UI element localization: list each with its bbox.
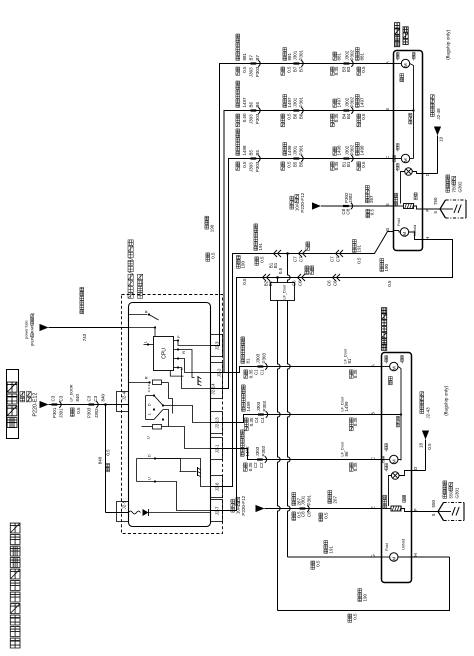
svg-text:C3: C3: [59, 395, 64, 401]
svg-text:+: +: [385, 470, 389, 472]
svg-text:J2-43: J2-43: [426, 407, 431, 419]
svg-text:D: D: [148, 403, 152, 406]
svg-text:(flagship only): (flagship only): [446, 29, 452, 59]
svg-text:190: 190: [210, 224, 215, 232]
svg-text:C1: C1: [260, 369, 265, 375]
svg-text:B7: B7: [293, 66, 298, 72]
svg-text:CPU: CPU: [162, 348, 168, 359]
svg-text:(RUN: (RUN: [31, 336, 35, 346]
svg-text:LF_DOOR: LF_DOOR: [70, 384, 74, 401]
svg-text:1499: 1499: [344, 401, 349, 412]
svg-text:R: R: [181, 351, 186, 354]
svg-text:0.35: 0.35: [353, 462, 358, 471]
svg-text:P301: P301: [307, 494, 312, 505]
svg-text:F: F: [413, 508, 418, 511]
svg-text:C8: C8: [301, 511, 306, 517]
svg-text:J2-48: J2-48: [436, 108, 441, 120]
svg-text:+: +: [412, 59, 416, 61]
svg-text:M: M: [391, 459, 396, 463]
svg-text:B: B: [371, 412, 376, 415]
svg-text:0.5: 0.5: [324, 512, 329, 519]
svg-text:0.5: 0.5: [357, 257, 362, 264]
svg-text:G301: G301: [455, 487, 460, 499]
svg-text:P220-E12: P220-E12: [33, 393, 39, 417]
svg-text:C8: C8: [346, 208, 351, 214]
svg-text:0.5: 0.5: [316, 560, 321, 567]
svg-text:B5: B5: [293, 161, 298, 167]
svg-text:+: +: [400, 362, 404, 364]
svg-text:L: L: [148, 413, 152, 415]
svg-text:550: 550: [449, 490, 454, 498]
svg-text:G302: G302: [458, 181, 463, 193]
svg-text:C4: C4: [260, 417, 265, 423]
svg-text:G: G: [371, 554, 376, 558]
svg-text:M: M: [403, 63, 408, 67]
svg-text:191: 191: [357, 244, 362, 252]
svg-text:J303: J303: [94, 408, 99, 418]
svg-text:C7: C7: [330, 256, 335, 262]
svg-text:B7: B7: [249, 54, 254, 60]
svg-text:P303: P303: [261, 445, 266, 456]
svg-text:190: 190: [241, 260, 246, 268]
svg-text:U: U: [147, 477, 152, 480]
svg-text:840: 840: [75, 393, 80, 401]
svg-text:0.5: 0.5: [106, 449, 111, 456]
svg-text:C1: C1: [254, 369, 259, 375]
svg-text:P301: P301: [299, 96, 304, 107]
svg-text:191: 191: [258, 242, 263, 250]
svg-text:P302: P302: [350, 49, 355, 60]
svg-text:(flagship only): (flagship only): [444, 385, 450, 415]
svg-text:881: 881: [242, 52, 247, 60]
svg-text:B5: B5: [249, 149, 254, 155]
svg-text:P301: P301: [299, 144, 304, 155]
svg-text:B4: B4: [346, 113, 351, 119]
svg-text:190: 190: [384, 263, 389, 271]
svg-text:+: +: [396, 59, 400, 61]
svg-text:J303: J303: [249, 114, 254, 124]
svg-text:0.35: 0.35: [334, 66, 339, 75]
svg-text:Fold: Fold: [385, 543, 389, 550]
svg-text:B1: B1: [273, 262, 278, 268]
svg-text:B: B: [385, 108, 390, 111]
svg-text:B2: B2: [268, 280, 273, 286]
svg-text:Unfold: Unfold: [413, 225, 417, 236]
svg-text:E: E: [385, 203, 390, 206]
svg-text:M: M: [391, 557, 396, 561]
svg-text:R: R: [144, 310, 149, 313]
svg-text:C6: C6: [333, 280, 338, 286]
svg-text:750: 750: [452, 184, 457, 192]
svg-text:1497: 1497: [242, 97, 247, 108]
svg-text:U: U: [146, 436, 151, 439]
svg-text:0.5: 0.5: [370, 209, 375, 216]
svg-text:P220-F12: P220-F12: [241, 495, 246, 515]
svg-text:P220-F12: P220-F12: [300, 192, 305, 212]
svg-text:G: G: [385, 227, 390, 231]
svg-text:/: /: [128, 272, 135, 274]
svg-text:750: 750: [433, 197, 438, 205]
svg-text:881: 881: [360, 52, 365, 60]
svg-text:19: 19: [439, 136, 444, 142]
svg-text:81: 81: [246, 358, 251, 364]
svg-text:P303: P303: [262, 400, 267, 411]
svg-text:J301: J301: [59, 408, 64, 418]
svg-text:0.5: 0.5: [211, 252, 216, 259]
svg-text:881: 881: [337, 52, 342, 60]
svg-text:0.50: 0.50: [242, 113, 247, 122]
svg-text:J301: J301: [301, 495, 306, 505]
svg-text:267: 267: [369, 195, 374, 203]
svg-text:RAP: RAP: [31, 325, 35, 333]
svg-text:840: 840: [98, 456, 103, 464]
svg-text:81: 81: [347, 358, 352, 364]
svg-text:550: 550: [431, 499, 436, 507]
svg-text:0.5: 0.5: [361, 161, 366, 168]
svg-text:0.5: 0.5: [242, 161, 247, 168]
svg-text:B6: B6: [249, 101, 254, 107]
svg-text:Unfold: Unfold: [402, 539, 406, 550]
svg-text:0.5: 0.5: [260, 256, 265, 263]
svg-text:0.5: 0.5: [427, 443, 432, 450]
svg-text:1497: 1497: [360, 97, 365, 108]
svg-text:0.35: 0.35: [334, 161, 339, 170]
svg-text:power fuse: power fuse: [25, 320, 29, 339]
svg-text:0.5: 0.5: [287, 161, 292, 168]
svg-text:10A: 10A: [236, 506, 241, 514]
svg-text:B7: B7: [299, 66, 304, 72]
svg-text:J301: J301: [293, 145, 298, 155]
svg-text:J303: J303: [249, 162, 254, 172]
svg-text:C3: C3: [93, 395, 98, 401]
svg-text:+: +: [396, 150, 400, 152]
svg-text:C3: C3: [87, 395, 92, 401]
svg-text:H: H: [425, 237, 430, 240]
svg-text:P303: P303: [262, 352, 267, 363]
svg-text:0.35: 0.35: [334, 113, 339, 122]
svg-text:+: +: [385, 362, 389, 364]
svg-text:86: 86: [344, 451, 349, 457]
svg-text:1499: 1499: [246, 401, 251, 412]
svg-text:J302: J302: [348, 193, 353, 203]
svg-text:J303: J303: [255, 446, 260, 456]
svg-text:1498: 1498: [287, 145, 292, 156]
svg-text:J303: J303: [249, 67, 254, 77]
svg-text:18: 18: [419, 442, 424, 448]
svg-text:743: 743: [82, 333, 87, 341]
svg-text:J2-5: J2-5: [122, 500, 127, 509]
svg-text:J301: J301: [293, 97, 298, 107]
svg-text:D: D: [147, 454, 152, 457]
svg-text:190: 190: [363, 593, 368, 601]
svg-text:C2: C2: [253, 462, 258, 468]
svg-text:M: M: [391, 366, 396, 370]
svg-text:0.5: 0.5: [242, 278, 247, 285]
svg-text:0.5: 0.5: [242, 66, 247, 73]
svg-text:+: +: [396, 170, 400, 172]
svg-text:C4: C4: [254, 417, 259, 423]
svg-text:1497: 1497: [287, 97, 292, 108]
svg-text:J2-4: J2-4: [122, 391, 127, 400]
svg-text:P302: P302: [350, 96, 355, 107]
svg-text:C7: C7: [293, 256, 298, 262]
svg-text:B3: B3: [346, 66, 351, 72]
svg-text:+: +: [385, 450, 389, 452]
svg-text:C7: C7: [299, 256, 304, 262]
svg-text:840: 840: [101, 393, 106, 401]
svg-text:M: M: [402, 232, 407, 236]
svg-text:0.5: 0.5: [76, 407, 81, 414]
svg-text:P303: P303: [255, 113, 260, 124]
svg-text:P303: P303: [255, 66, 260, 77]
svg-text:P303: P303: [255, 161, 260, 172]
svg-text:1497: 1497: [337, 97, 342, 108]
svg-text:LF_Door: LF_Door: [283, 284, 287, 300]
svg-text:0.5: 0.5: [361, 113, 366, 120]
svg-text:0.5: 0.5: [278, 267, 283, 274]
svg-text:C8: C8: [307, 511, 312, 517]
svg-text:C7: C7: [336, 256, 341, 262]
svg-text:H: H: [413, 553, 418, 556]
svg-text:1498: 1498: [242, 145, 247, 156]
svg-text:P303: P303: [87, 407, 92, 418]
svg-text:0.5: 0.5: [353, 613, 358, 620]
svg-text:B7: B7: [255, 54, 260, 60]
svg-text:191: 191: [329, 545, 334, 553]
svg-text:B5: B5: [255, 149, 260, 155]
svg-text:M: M: [403, 158, 408, 162]
svg-text:C3: C3: [51, 395, 56, 401]
svg-text:B6: B6: [299, 113, 304, 119]
svg-text:C6: C6: [298, 280, 303, 286]
svg-text:0.35: 0.35: [353, 369, 358, 378]
svg-text:B1: B1: [346, 161, 351, 167]
svg-text:R: R: [144, 376, 149, 379]
svg-text:1498: 1498: [337, 145, 342, 156]
svg-text:P301: P301: [299, 49, 304, 60]
svg-text:B5: B5: [299, 161, 304, 167]
svg-text:P301: P301: [52, 407, 57, 418]
svg-text:Fold: Fold: [397, 218, 401, 225]
svg-text:267: 267: [333, 495, 338, 503]
svg-text:C6: C6: [292, 280, 297, 286]
svg-text:J303: J303: [256, 401, 261, 411]
svg-text:1498: 1498: [360, 145, 365, 156]
svg-text:1498: 1498: [245, 446, 250, 457]
svg-text:10A: 10A: [295, 203, 300, 211]
svg-text:0.5: 0.5: [287, 66, 292, 73]
svg-text:/: /: [128, 258, 135, 260]
svg-text:B6: B6: [293, 113, 298, 119]
svg-text:0.5: 0.5: [387, 280, 392, 287]
svg-text:0.5: 0.5: [361, 66, 366, 73]
svg-text:0.35: 0.35: [353, 417, 358, 426]
svg-text:E: E: [371, 506, 376, 509]
svg-text:C6: C6: [327, 280, 332, 286]
svg-text:J303: J303: [256, 353, 261, 363]
svg-text:881: 881: [287, 52, 292, 60]
svg-text:J301: J301: [293, 50, 298, 60]
svg-text:C2: C2: [259, 462, 264, 468]
svg-text:P302: P302: [350, 144, 355, 155]
svg-text:0.5: 0.5: [287, 113, 292, 120]
svg-text:B6: B6: [255, 101, 260, 107]
